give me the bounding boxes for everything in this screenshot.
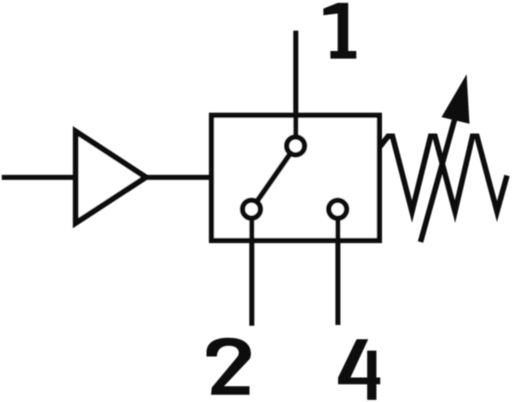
- amplifier triangle (pilot): [76, 131, 146, 223]
- switch arm: [252, 146, 296, 209]
- valve body box: [212, 115, 380, 240]
- port circle 4: [329, 200, 347, 218]
- wire triangle to valve body: [144, 175, 212, 180]
- wire input left: [2, 175, 78, 180]
- arrow shaft (adjustment): [421, 118, 456, 242]
- arrowhead: [442, 74, 470, 123]
- port circle 1: [287, 137, 305, 155]
- wire port 2 (bottom left): [249, 214, 254, 326]
- label 1: [323, 3, 356, 59]
- label 2: [207, 338, 251, 395]
- spring (adjustable): [380, 136, 507, 211]
- label 4: [338, 339, 380, 400]
- wire port 4 (bottom right): [335, 214, 340, 325]
- port circle 2: [243, 200, 261, 218]
- wire port 1 (top): [293, 31, 298, 142]
